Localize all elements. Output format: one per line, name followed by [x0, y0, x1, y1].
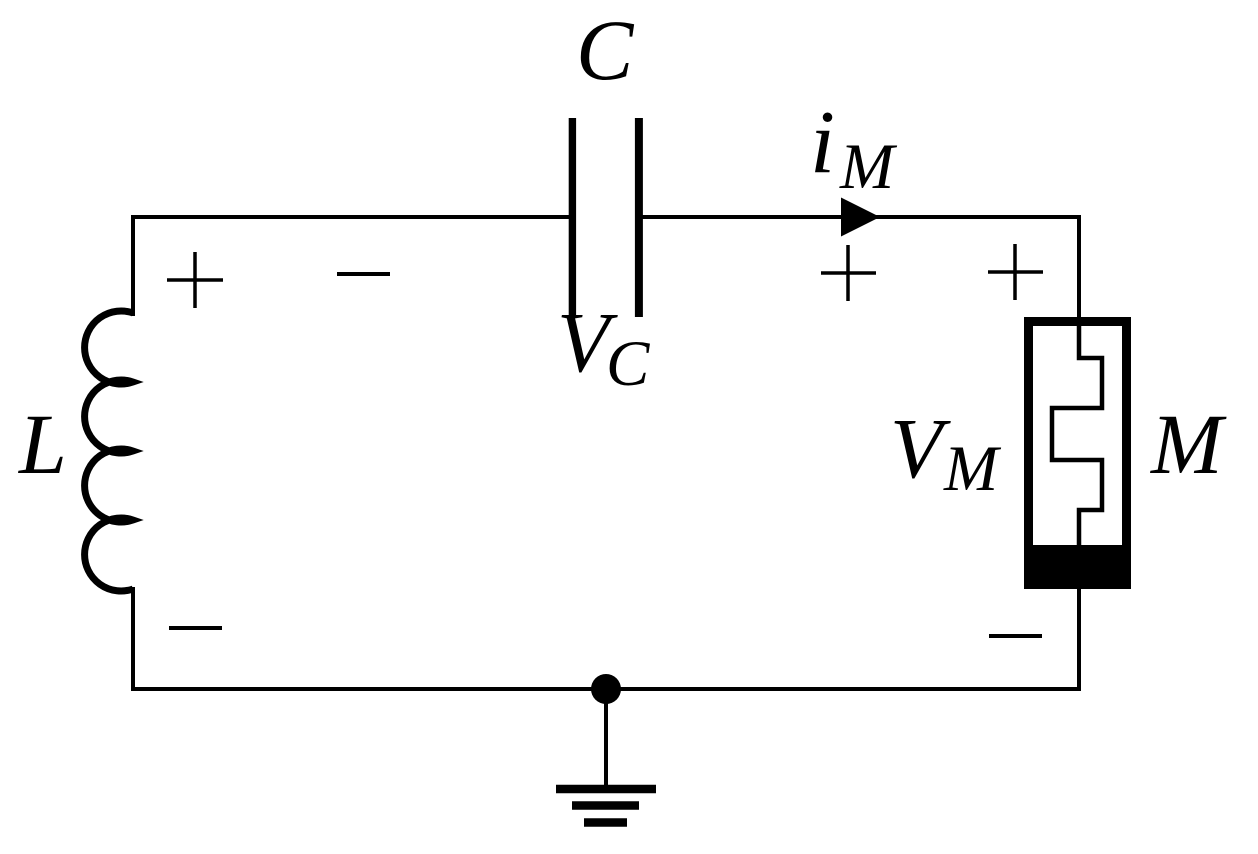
- wire left vertical lower: [131, 587, 135, 691]
- current arrow i_M: [841, 198, 880, 237]
- memristor M meander: [1052, 317, 1102, 545]
- wire left vertical upper: [131, 215, 135, 316]
- memristor M body outline: [1029, 322, 1127, 585]
- wire bottom: [131, 687, 1081, 691]
- wire right vertical lower: [1077, 588, 1081, 691]
- svg-text:M: M: [1149, 396, 1227, 492]
- plus sign right of C (C right terminal): [821, 245, 876, 301]
- minus sign bottom-left (L negative terminal): [169, 626, 222, 630]
- inductor L coil: [85, 311, 133, 591]
- capacitor C left plate: [569, 118, 576, 315]
- minus sign bottom-right (M negative terminal): [989, 634, 1042, 638]
- capacitor C right plate: [635, 118, 643, 317]
- svg-text:V: V: [890, 400, 951, 496]
- svg-text:M: M: [839, 131, 898, 203]
- svg-text:i: i: [810, 93, 835, 192]
- plus sign top-left (L positive terminal): [167, 252, 223, 308]
- svg-text:M: M: [943, 433, 1002, 505]
- plus sign top-right (M positive terminal): [988, 244, 1043, 300]
- svg-text:C: C: [606, 328, 650, 400]
- wire top-left segment: [133, 215, 572, 219]
- svg-text:C: C: [576, 2, 635, 98]
- wire ground stub: [604, 689, 608, 789]
- wire right vertical upper: [1077, 215, 1081, 321]
- ground symbol: [556, 789, 656, 823]
- minus sign top (C left terminal): [337, 272, 390, 276]
- svg-text:L: L: [17, 396, 67, 492]
- wire top-right segment: [639, 215, 1081, 219]
- memristor M bottom electrode bar: [1024, 545, 1131, 589]
- node junction dot: [591, 674, 621, 704]
